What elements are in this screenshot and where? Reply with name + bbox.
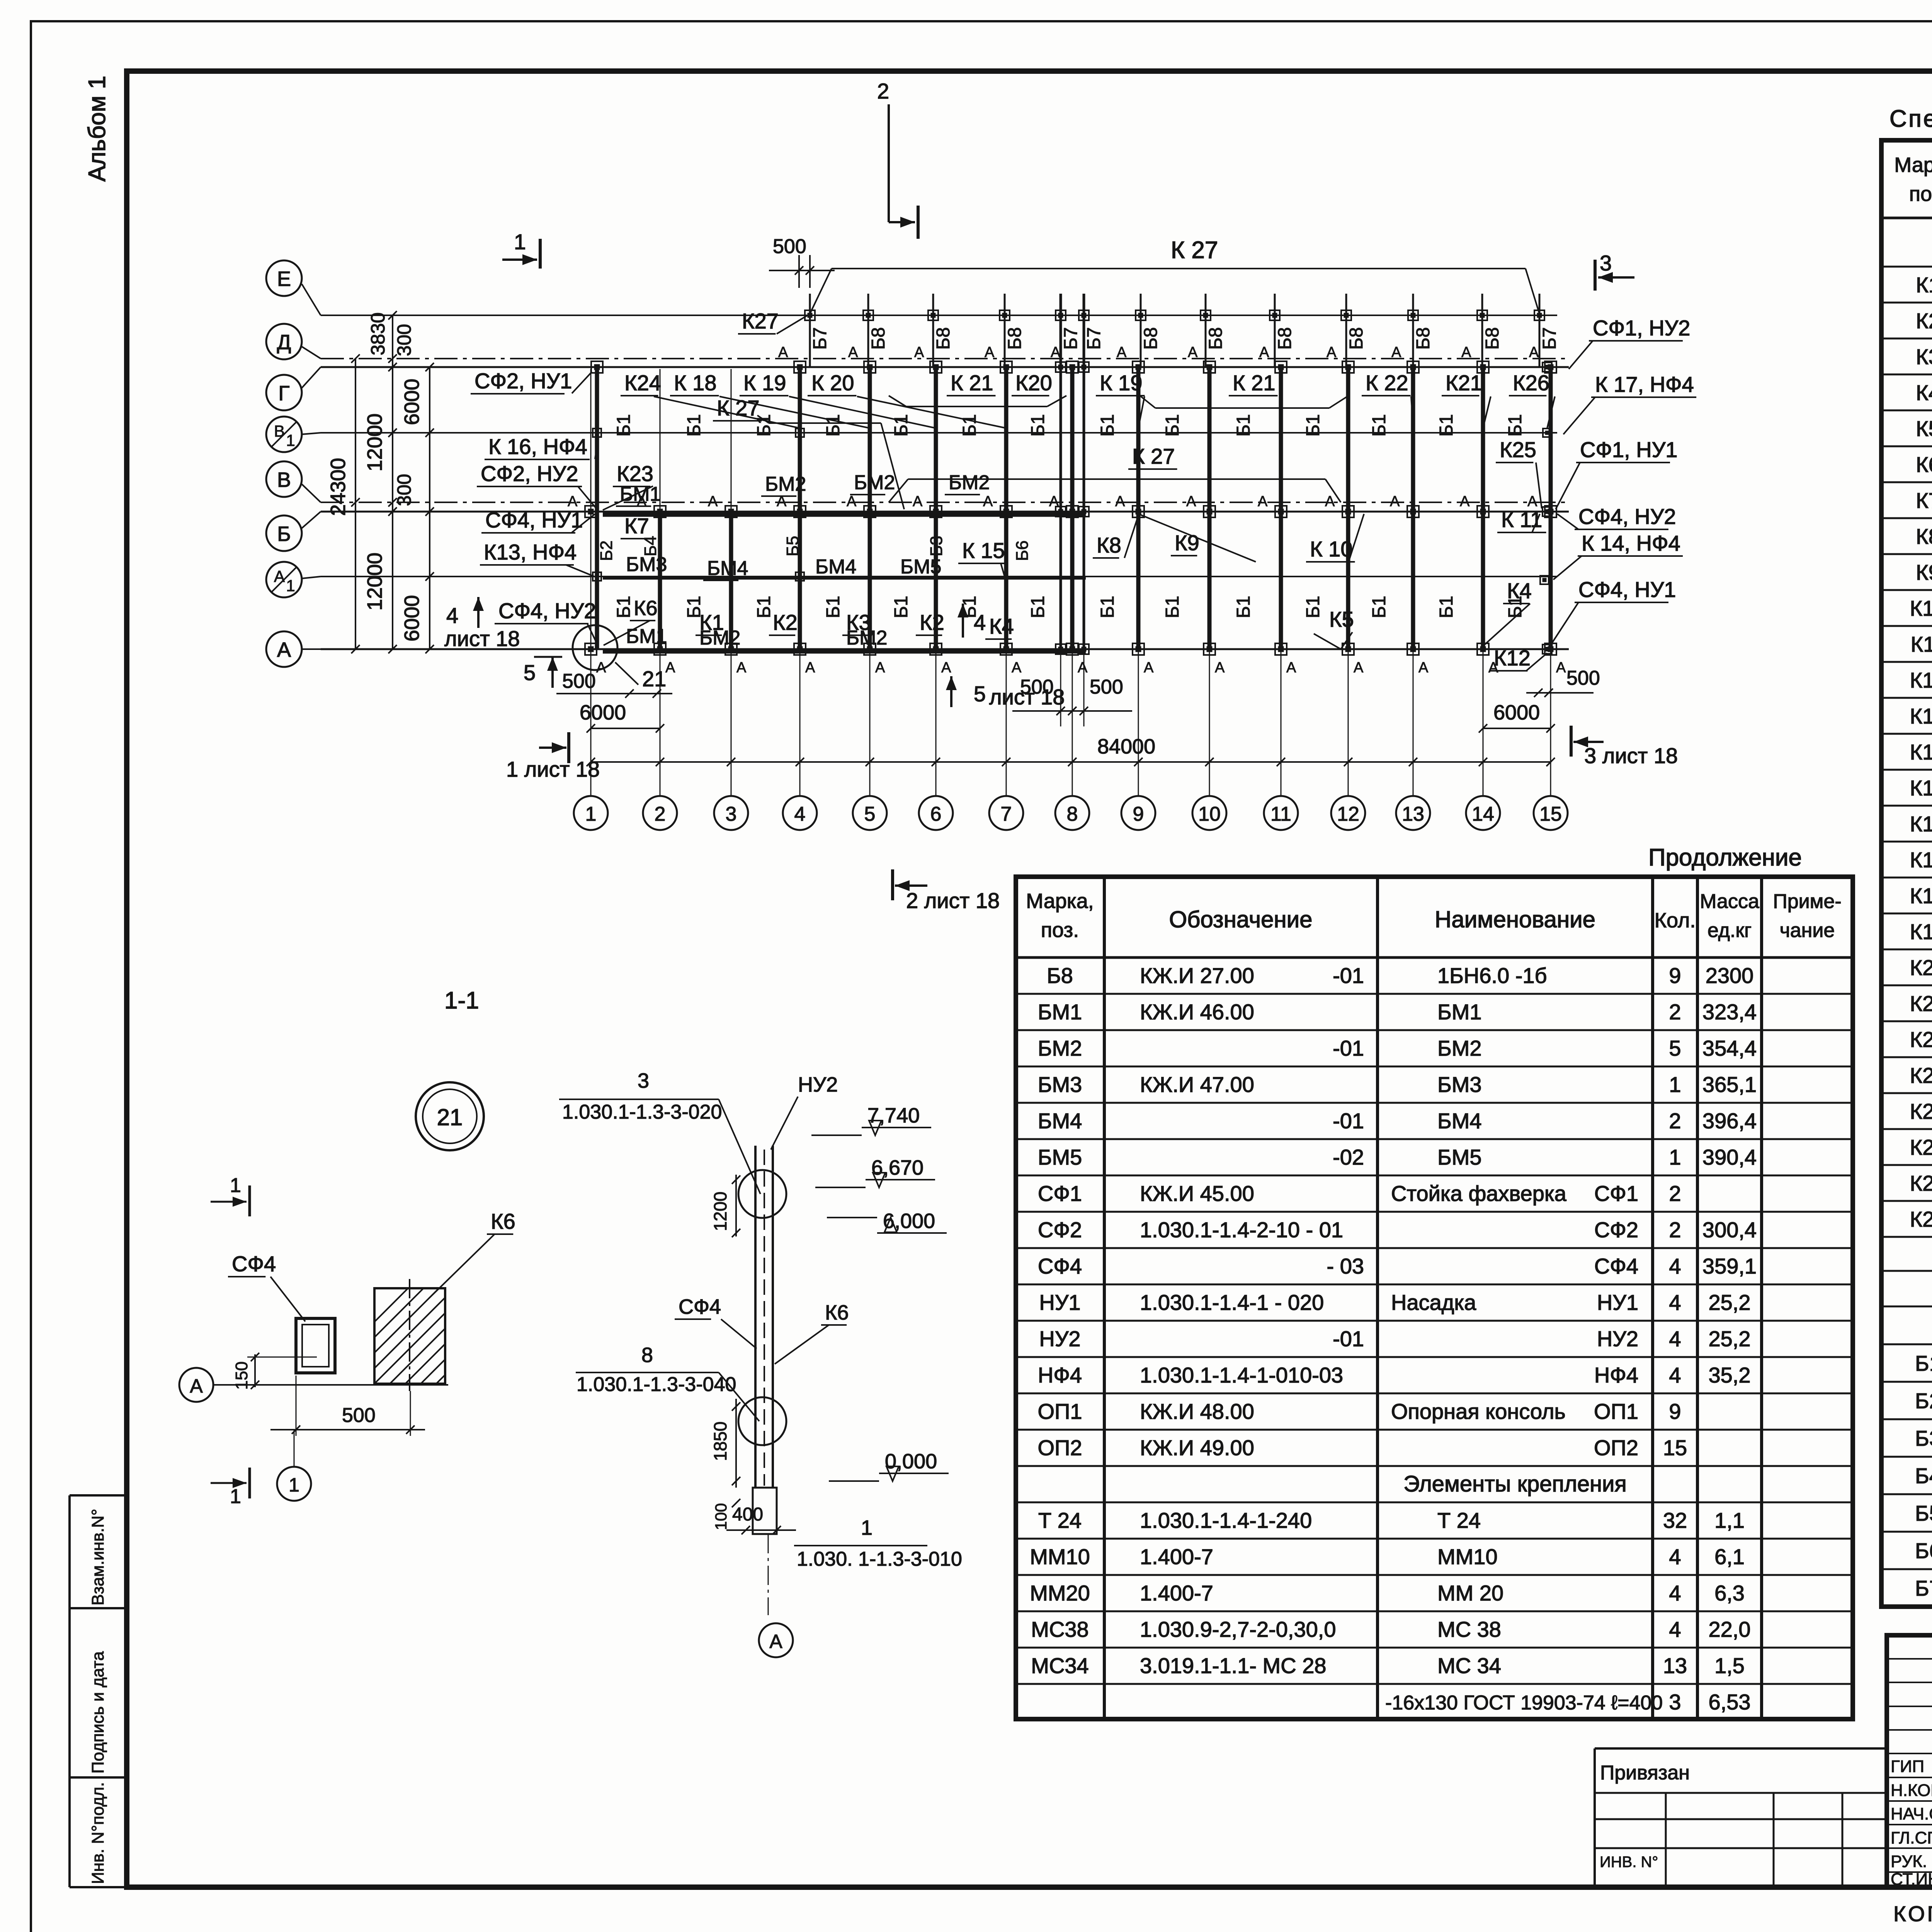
svg-text:14: 14: [1472, 803, 1494, 825]
svg-text:МС34: МС34: [1031, 1653, 1088, 1678]
svg-text:1850: 1850: [710, 1422, 730, 1461]
svg-text:РУК. ГР.: РУК. ГР.: [1891, 1852, 1932, 1871]
svg-text:4: 4: [1669, 1581, 1681, 1605]
svg-text:К4: К4: [989, 614, 1014, 638]
svg-text:К25: К25: [1910, 1135, 1932, 1160]
svg-text:К6: К6: [1916, 452, 1932, 477]
svg-text:МС 38: МС 38: [1437, 1617, 1501, 1641]
svg-text:БМ4: БМ4: [707, 557, 748, 580]
svg-text:К15: К15: [1910, 776, 1932, 800]
svg-text:А: А: [1012, 660, 1022, 676]
svg-text:Б3: Б3: [927, 536, 946, 556]
svg-text:А: А: [1117, 344, 1127, 361]
svg-text:ММ10: ММ10: [1437, 1544, 1498, 1569]
svg-text:1.030.9-2,7-2-0,30,0: 1.030.9-2,7-2-0,30,0: [1140, 1617, 1336, 1641]
svg-text:7,740: 7,740: [867, 1104, 920, 1127]
svg-text:А: А: [1391, 344, 1401, 361]
svg-text:5: 5: [974, 682, 986, 706]
svg-text:КЖ.И 48.00: КЖ.И 48.00: [1140, 1399, 1254, 1423]
svg-text:К12: К12: [1494, 646, 1531, 670]
svg-text:БМ2: БМ2: [1038, 1036, 1082, 1060]
svg-text:-01: -01: [1333, 1109, 1364, 1133]
svg-text:Б6: Б6: [1915, 1539, 1932, 1563]
svg-text:1.030.1-1.3-3-040: 1.030.1-1.3-3-040: [577, 1373, 736, 1396]
svg-text:3 лист 18: 3 лист 18: [1584, 743, 1678, 768]
svg-text:Б1: Б1: [823, 414, 844, 437]
svg-text:500: 500: [1020, 676, 1054, 698]
svg-text:-02: -02: [1333, 1145, 1364, 1169]
svg-text:2: 2: [877, 79, 889, 103]
svg-text:Б1: Б1: [1369, 596, 1389, 618]
svg-text:- 03: - 03: [1327, 1254, 1364, 1278]
svg-text:А: А: [1418, 660, 1429, 676]
svg-text:Б1: Б1: [823, 596, 844, 618]
svg-text:К24: К24: [1910, 1099, 1932, 1124]
svg-text:1 лист 18: 1 лист 18: [506, 757, 600, 781]
svg-text:БМ4: БМ4: [1437, 1109, 1482, 1133]
svg-text:А: А: [274, 567, 285, 585]
svg-text:9: 9: [1669, 963, 1681, 988]
svg-text:500: 500: [1090, 676, 1123, 698]
svg-text:ММ 20: ММ 20: [1437, 1581, 1503, 1605]
svg-text:БМ2: БМ2: [699, 627, 740, 649]
svg-text:Б1: Б1: [614, 414, 634, 437]
svg-text:БМ4: БМ4: [815, 556, 856, 578]
svg-text:СФ4, НУ2: СФ4, НУ2: [498, 599, 596, 623]
svg-text:К6: К6: [825, 1301, 849, 1324]
svg-text:СФ4: СФ4: [232, 1252, 276, 1276]
svg-text:6000: 6000: [580, 701, 626, 724]
svg-text:Б7: Б7: [1061, 327, 1081, 350]
svg-text:МС38: МС38: [1031, 1617, 1088, 1641]
svg-text:22,0: 22,0: [1709, 1617, 1751, 1641]
svg-text:НУ2: НУ2: [1597, 1327, 1638, 1351]
svg-text:4: 4: [1669, 1327, 1681, 1351]
svg-text:КОПИРОВАЛ БАБИНА: КОПИРОВАЛ БАБИНА: [1893, 1901, 1932, 1926]
svg-text:Е: Е: [277, 267, 291, 291]
svg-text:9: 9: [1133, 803, 1144, 825]
svg-text:ед.кг: ед.кг: [1708, 919, 1752, 942]
svg-text:А: А: [1529, 344, 1539, 361]
svg-text:К18: К18: [1910, 884, 1932, 908]
svg-text:А: А: [1259, 344, 1269, 361]
svg-text:ГИП: ГИП: [1891, 1757, 1924, 1776]
svg-text:1.030.1-1.4-2-10 - 01: 1.030.1-1.4-2-10 - 01: [1140, 1218, 1343, 1242]
svg-text:К7: К7: [1916, 488, 1932, 513]
svg-text:А: А: [1460, 493, 1470, 510]
svg-text:СФ1, НУ1: СФ1, НУ1: [1580, 437, 1677, 462]
svg-text:К 27: К 27: [1171, 237, 1218, 264]
svg-text:Б8: Б8: [1346, 327, 1367, 350]
svg-text:3830: 3830: [367, 312, 389, 355]
svg-text:А: А: [1051, 344, 1061, 361]
svg-text:поз.: поз.: [1041, 918, 1079, 942]
svg-text:БМ2: БМ2: [765, 473, 806, 495]
svg-text:К 17, НФ4: К 17, НФ4: [1595, 372, 1694, 396]
svg-text:2 лист 18: 2 лист 18: [906, 888, 1000, 913]
svg-text:9: 9: [1669, 1399, 1681, 1423]
svg-text:СФ4: СФ4: [1594, 1254, 1638, 1278]
svg-text:3: 3: [726, 803, 737, 825]
svg-text:1,5: 1,5: [1714, 1653, 1745, 1678]
svg-text:БМ3: БМ3: [1038, 1072, 1082, 1097]
svg-text:Т 24: Т 24: [1038, 1508, 1082, 1532]
svg-text:А: А: [985, 344, 995, 361]
svg-text:СФ4: СФ4: [679, 1295, 721, 1318]
svg-text:6000: 6000: [400, 379, 423, 425]
svg-text:Б1: Б1: [1097, 596, 1118, 618]
svg-text:1: 1: [230, 1485, 241, 1508]
svg-text:1-1: 1-1: [444, 987, 479, 1014]
svg-text:Б1: Б1: [1028, 596, 1048, 618]
svg-text:4: 4: [1669, 1363, 1681, 1387]
svg-text:К4: К4: [1916, 381, 1932, 405]
svg-text:А: А: [568, 493, 578, 510]
svg-text:К26: К26: [1513, 371, 1549, 395]
svg-text:А: А: [665, 660, 675, 676]
svg-text:К20: К20: [1015, 371, 1052, 395]
svg-text:К 19: К 19: [743, 371, 786, 395]
svg-text:2: 2: [1669, 1218, 1681, 1242]
svg-text:КЖ.И 49.00: КЖ.И 49.00: [1140, 1435, 1254, 1460]
svg-text:НФ4: НФ4: [1594, 1363, 1638, 1387]
svg-text:323,4: 323,4: [1702, 1000, 1757, 1024]
svg-text:А: А: [1461, 344, 1471, 361]
svg-text:35,2: 35,2: [1709, 1363, 1751, 1387]
svg-text:К 18: К 18: [674, 371, 716, 395]
svg-text:К21: К21: [1910, 992, 1932, 1016]
svg-text:чание: чание: [1780, 919, 1835, 942]
svg-text:А: А: [708, 493, 718, 510]
svg-text:1.030.1-1.4-1-240: 1.030.1-1.4-1-240: [1140, 1508, 1312, 1532]
svg-text:СФ1, НУ2: СФ1, НУ2: [1593, 316, 1690, 340]
svg-text:А: А: [983, 493, 993, 510]
svg-text:КЖ.И 27.00: КЖ.И 27.00: [1140, 963, 1254, 988]
svg-text:К23: К23: [1910, 1063, 1932, 1088]
svg-text:СФ1: СФ1: [1594, 1181, 1638, 1206]
svg-text:1: 1: [1669, 1072, 1681, 1097]
svg-text:К 21: К 21: [951, 371, 993, 395]
svg-text:359,1: 359,1: [1702, 1254, 1757, 1278]
svg-text:Б4: Б4: [1915, 1464, 1932, 1488]
svg-text:Элементы крепления: Элементы крепления: [1403, 1471, 1627, 1497]
svg-text:5: 5: [1669, 1036, 1681, 1060]
svg-text:БМ5: БМ5: [1038, 1145, 1082, 1169]
svg-text:32: 32: [1663, 1508, 1687, 1532]
svg-text:А: А: [1286, 660, 1296, 676]
svg-text:Б: Б: [277, 522, 291, 546]
svg-text:К14: К14: [1910, 740, 1932, 764]
svg-text:К13, НФ4: К13, НФ4: [484, 540, 577, 564]
svg-text:СФ4, НУ1: СФ4, НУ1: [1578, 577, 1676, 602]
svg-text:Д: Д: [277, 331, 291, 354]
svg-text:БМ4: БМ4: [1038, 1109, 1082, 1133]
svg-text:15: 15: [1663, 1435, 1687, 1460]
svg-text:8: 8: [1067, 803, 1078, 825]
svg-text:12000: 12000: [363, 413, 386, 471]
svg-text:Взам.инв.N°: Взам.инв.N°: [88, 1509, 107, 1605]
svg-text:А: А: [1258, 493, 1268, 510]
svg-text:К16: К16: [1910, 812, 1932, 836]
svg-text:6000: 6000: [400, 595, 423, 641]
svg-text:Б7: Б7: [810, 327, 830, 350]
svg-text:300,4: 300,4: [1702, 1218, 1757, 1242]
svg-text:Наименование: Наименование: [1435, 906, 1595, 932]
svg-text:500: 500: [773, 235, 806, 258]
svg-text:Стойка фахверка: Стойка фахверка: [1391, 1181, 1567, 1206]
svg-text:7: 7: [1001, 803, 1012, 825]
svg-text:К12: К12: [1910, 668, 1932, 692]
svg-text:К9: К9: [1916, 560, 1932, 585]
svg-text:1: 1: [585, 803, 597, 825]
svg-text:К8: К8: [1097, 533, 1121, 557]
svg-text:1: 1: [1669, 1145, 1681, 1169]
svg-text:ОП2: ОП2: [1594, 1435, 1638, 1460]
svg-text:А: А: [1186, 493, 1196, 510]
svg-text:К7: К7: [624, 514, 649, 538]
svg-text:СФ2, НУ1: СФ2, НУ1: [474, 369, 572, 393]
svg-text:К22: К22: [1910, 1027, 1932, 1052]
svg-text:К 19: К 19: [1100, 371, 1142, 395]
svg-text:1БН6.0 -1б: 1БН6.0 -1б: [1437, 963, 1547, 988]
svg-text:3: 3: [1600, 251, 1612, 275]
svg-text:300: 300: [393, 474, 415, 506]
svg-text:Б1: Б1: [1436, 414, 1457, 437]
svg-text:К3: К3: [1916, 345, 1932, 369]
svg-text:Марка,: Марка,: [1026, 889, 1094, 913]
svg-text:К 27: К 27: [717, 396, 759, 420]
svg-text:ИНВ. N°: ИНВ. N°: [1600, 1854, 1658, 1871]
svg-text:К26: К26: [1910, 1171, 1932, 1196]
svg-text:К 11: К 11: [1501, 507, 1542, 532]
svg-text:-01: -01: [1333, 1036, 1364, 1060]
svg-text:К2: К2: [920, 610, 944, 634]
svg-text:Б8: Б8: [1275, 327, 1295, 350]
svg-text:500: 500: [342, 1404, 376, 1427]
svg-text:Обозначение: Обозначение: [1169, 906, 1312, 932]
svg-text:А: А: [913, 493, 923, 510]
svg-text:Б1: Б1: [1162, 596, 1183, 618]
svg-text:ММ20: ММ20: [1030, 1581, 1090, 1605]
svg-text:25,2: 25,2: [1709, 1290, 1751, 1315]
svg-text:Г: Г: [278, 382, 289, 405]
svg-text:К19: К19: [1910, 920, 1932, 944]
svg-text:Подпись и дата: Подпись и дата: [88, 1651, 107, 1774]
svg-text:10: 10: [1198, 803, 1221, 825]
svg-text:Б8: Б8: [933, 327, 954, 350]
svg-text:1: 1: [230, 1174, 241, 1197]
svg-text:А: А: [1325, 493, 1335, 510]
svg-text:3: 3: [638, 1069, 649, 1092]
svg-text:2: 2: [1669, 1000, 1681, 1024]
svg-text:Продолжение: Продолжение: [1648, 844, 1802, 871]
svg-text:1: 1: [286, 431, 295, 449]
svg-text:МС 34: МС 34: [1437, 1653, 1501, 1678]
svg-text:А: А: [277, 638, 291, 662]
svg-text:354,4: 354,4: [1702, 1036, 1757, 1060]
svg-text:КЖ.И 45.00: КЖ.И 45.00: [1140, 1181, 1254, 1206]
svg-text:Б5: Б5: [1915, 1501, 1932, 1526]
svg-text:4: 4: [446, 603, 458, 628]
svg-text:А: А: [875, 660, 885, 676]
svg-text:К 22: К 22: [1366, 371, 1408, 395]
svg-text:А: А: [1115, 493, 1125, 510]
svg-text:ГЛ.СПЕЦ.: ГЛ.СПЕЦ.: [1891, 1828, 1932, 1847]
svg-text:БМ1: БМ1: [1038, 1000, 1082, 1024]
svg-text:А: А: [1215, 660, 1225, 676]
svg-text:6,000: 6,000: [883, 1209, 935, 1233]
svg-text:Б1: Б1: [1303, 596, 1323, 618]
svg-text:СФ2, НУ2: СФ2, НУ2: [481, 461, 578, 486]
svg-text:Б8: Б8: [1005, 327, 1025, 350]
svg-text:СФ2: СФ2: [1038, 1218, 1082, 1242]
svg-text:400: 400: [732, 1504, 763, 1525]
svg-text:Б1: Б1: [1233, 414, 1254, 437]
svg-text:К 14, НФ4: К 14, НФ4: [1582, 531, 1680, 555]
svg-text:Б7: Б7: [1539, 327, 1560, 350]
svg-text:А: А: [914, 344, 924, 361]
svg-text:НФ4: НФ4: [1038, 1363, 1082, 1387]
svg-text:НУ1: НУ1: [1597, 1290, 1638, 1315]
svg-text:К10: К10: [1910, 596, 1932, 621]
svg-text:К27: К27: [1910, 1207, 1932, 1231]
svg-text:ОП2: ОП2: [1038, 1435, 1082, 1460]
svg-text:ММ10: ММ10: [1030, 1544, 1090, 1569]
svg-text:А: А: [941, 660, 951, 676]
svg-text:6,53: 6,53: [1709, 1690, 1751, 1714]
svg-text:А: А: [847, 493, 857, 510]
svg-text:Б1: Б1: [1303, 414, 1323, 437]
svg-text:К27: К27: [742, 309, 779, 333]
svg-text:4: 4: [794, 803, 806, 825]
svg-text:Кол.: Кол.: [1655, 909, 1696, 932]
svg-text:4: 4: [1669, 1544, 1681, 1569]
svg-text:В: В: [274, 422, 285, 440]
svg-text:1,1: 1,1: [1714, 1508, 1745, 1532]
svg-text:КЖ.И 47.00: КЖ.И 47.00: [1140, 1072, 1254, 1097]
svg-text:БМ1: БМ1: [626, 625, 667, 648]
svg-text:БМ3: БМ3: [626, 553, 667, 576]
svg-text:А: А: [190, 1375, 203, 1397]
svg-text:1: 1: [289, 1474, 299, 1496]
svg-text:К6: К6: [634, 597, 658, 620]
svg-text:1.400-7: 1.400-7: [1140, 1544, 1213, 1569]
svg-text:Б8: Б8: [1413, 327, 1434, 350]
svg-text:лист 18: лист 18: [444, 626, 520, 651]
svg-text:Б8: Б8: [1482, 327, 1503, 350]
svg-text:А: А: [736, 660, 747, 676]
svg-text:А: А: [1144, 660, 1154, 676]
svg-text:1.030. 1-1.3-3-010: 1.030. 1-1.3-3-010: [797, 1548, 962, 1570]
svg-text:21: 21: [437, 1104, 463, 1130]
svg-text:К24: К24: [624, 371, 661, 395]
svg-text:390,4: 390,4: [1702, 1145, 1757, 1169]
svg-text:2: 2: [655, 803, 666, 825]
svg-text:СТ.ИНЖ.: СТ.ИНЖ.: [1891, 1870, 1932, 1889]
svg-text:А: А: [1049, 493, 1059, 510]
svg-text:А: А: [1188, 344, 1198, 361]
svg-text:Привязан: Привязан: [1600, 1762, 1690, 1784]
svg-text:Б8: Б8: [1047, 963, 1073, 988]
svg-text:1: 1: [861, 1516, 872, 1539]
svg-text:Б6: Б6: [1013, 541, 1032, 561]
svg-text:К25: К25: [1500, 437, 1536, 462]
svg-text:Насадка: Насадка: [1391, 1290, 1476, 1315]
svg-text:Б2: Б2: [1915, 1389, 1932, 1413]
svg-text:84000: 84000: [1097, 735, 1155, 758]
svg-text:Б1: Б1: [1915, 1351, 1932, 1376]
svg-text:0,000: 0,000: [885, 1450, 937, 1473]
svg-text:5: 5: [524, 660, 536, 685]
svg-text:1.400-7: 1.400-7: [1140, 1581, 1213, 1605]
svg-text:11: 11: [1270, 803, 1291, 825]
svg-text:ОП1: ОП1: [1038, 1399, 1082, 1423]
svg-text:Б2: Б2: [597, 541, 616, 561]
svg-text:25,2: 25,2: [1709, 1327, 1751, 1351]
svg-text:БМ1: БМ1: [620, 483, 661, 505]
svg-text:К 16, НФ4: К 16, НФ4: [488, 434, 587, 459]
svg-text:4: 4: [1669, 1290, 1681, 1315]
svg-text:БМ3: БМ3: [1437, 1072, 1482, 1097]
svg-text:Б1: Б1: [959, 414, 980, 437]
svg-text:13: 13: [1663, 1653, 1687, 1678]
svg-text:ОП1: ОП1: [1594, 1399, 1638, 1423]
svg-text:Спецификация элементов к схеме: Спецификация элементов к схеме расположе…: [1889, 105, 1932, 132]
svg-text:6: 6: [930, 803, 942, 825]
svg-text:А: А: [848, 344, 858, 361]
svg-text:А: А: [1390, 493, 1400, 510]
svg-text:А: А: [1078, 660, 1088, 676]
svg-text:4: 4: [1669, 1254, 1681, 1278]
svg-text:24300: 24300: [327, 458, 350, 516]
svg-text:К2: К2: [773, 610, 798, 634]
svg-text:Инв. N°подл.: Инв. N°подл.: [88, 1782, 107, 1884]
svg-text:6,670: 6,670: [871, 1156, 923, 1179]
svg-text:Б7: Б7: [1084, 327, 1104, 350]
svg-text:А: А: [1327, 344, 1337, 361]
svg-text:поз.: поз.: [1909, 182, 1932, 206]
svg-text:А: А: [805, 660, 815, 676]
svg-text:НАЧ.ОТД: НАЧ.ОТД: [1891, 1804, 1932, 1823]
svg-text:1.030.1-1.3-3-020: 1.030.1-1.3-3-020: [562, 1101, 722, 1123]
svg-text:К2: К2: [1916, 309, 1932, 333]
svg-text:1: 1: [286, 577, 295, 595]
svg-text:К11: К11: [1911, 632, 1932, 656]
svg-text:-16х130 ГОСТ 19903-74 ℓ=400: -16х130 ГОСТ 19903-74 ℓ=400: [1385, 1692, 1663, 1714]
svg-text:СФ4, НУ2: СФ4, НУ2: [1578, 504, 1676, 529]
svg-text:Б1: Б1: [614, 596, 634, 618]
svg-text:СФ4: СФ4: [1038, 1254, 1082, 1278]
svg-text:1.030.1-1.4-1 - 020: 1.030.1-1.4-1 - 020: [1140, 1290, 1324, 1315]
svg-text:К1: К1: [1916, 273, 1932, 297]
svg-text:12: 12: [1337, 803, 1359, 825]
svg-text:БМ2: БМ2: [1437, 1036, 1482, 1060]
svg-text:-01: -01: [1333, 1327, 1364, 1351]
svg-text:12000: 12000: [363, 553, 386, 611]
svg-text:К21: К21: [1446, 371, 1482, 395]
svg-text:К23: К23: [617, 461, 653, 486]
svg-text:Б8: Б8: [1206, 327, 1226, 350]
svg-text:А: А: [1556, 660, 1566, 676]
svg-text:3: 3: [1669, 1690, 1681, 1714]
svg-text:К 10: К 10: [1310, 537, 1352, 561]
svg-text:Б1: Б1: [891, 596, 912, 618]
svg-text:БМ1: БМ1: [1437, 1000, 1482, 1024]
svg-text:К8: К8: [1916, 524, 1932, 549]
svg-text:Б8: Б8: [1141, 327, 1161, 350]
svg-text:Н.КОНТР.: Н.КОНТР.: [1891, 1781, 1932, 1800]
svg-text:Альбом 1: Альбом 1: [84, 76, 111, 182]
